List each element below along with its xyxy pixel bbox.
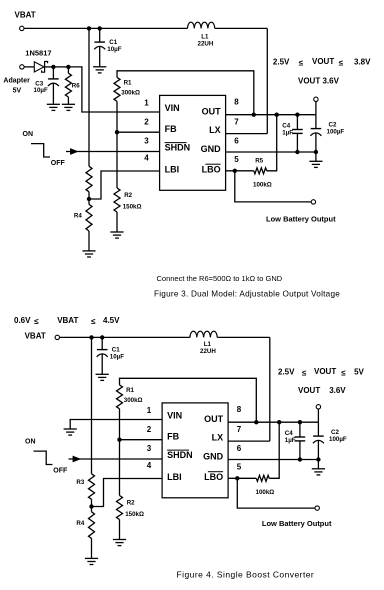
svg-text:C2: C2	[331, 429, 339, 436]
svg-text:VBAT: VBAT	[15, 11, 36, 20]
wire junction to R4	[91, 507, 93, 512]
capacitor C2	[313, 422, 324, 459]
terminal VBAT	[20, 26, 24, 30]
svg-text:8: 8	[234, 98, 239, 107]
wire R1 to FB	[116, 101, 118, 132]
svg-text:OFF: OFF	[51, 160, 66, 167]
wire LBO to output terminal	[235, 171, 311, 202]
wire corner down to LX	[266, 28, 268, 133]
resistor R5 100k	[254, 168, 267, 174]
wire LBO pin	[226, 170, 254, 172]
svg-text:6: 6	[237, 444, 242, 453]
svg-text:5V: 5V	[354, 368, 364, 377]
junction OUT/feedback	[254, 420, 258, 424]
resistor R4	[89, 512, 95, 539]
resistor R1	[114, 77, 120, 101]
svg-text:Figure 4. Single Boost Conver: Figure 4. Single Boost Converter	[177, 570, 315, 580]
wire FB pin	[117, 131, 160, 133]
svg-text:7: 7	[237, 425, 242, 434]
svg-text:VOUT 3.6V: VOUT 3.6V	[298, 77, 340, 86]
svg-text:4.5V: 4.5V	[103, 316, 120, 325]
wire VBAT rail	[60, 336, 191, 338]
wire R6 to ground	[67, 97, 69, 104]
svg-text:VBAT: VBAT	[25, 332, 46, 341]
svg-text:C4: C4	[285, 430, 293, 437]
svg-text:5V: 5V	[13, 88, 22, 95]
svg-text:R3: R3	[76, 479, 84, 486]
svg-text:LBI: LBI	[165, 164, 180, 174]
svg-text:1: 1	[144, 98, 149, 107]
svg-text:OUT: OUT	[204, 414, 224, 424]
junction LBO	[235, 476, 239, 480]
arrow SHDN	[70, 148, 79, 155]
svg-text:R6: R6	[72, 82, 80, 89]
wire adapter node to VIN	[68, 67, 159, 112]
svg-text:3: 3	[144, 137, 149, 146]
junction GND/C2	[316, 457, 320, 461]
svg-text:1µF: 1µF	[285, 437, 296, 444]
svg-text:GND: GND	[203, 451, 224, 461]
svg-text:R5: R5	[255, 157, 263, 164]
wire L1 to corner	[215, 27, 268, 29]
svg-text:4: 4	[144, 154, 149, 163]
wire R2 to ground	[116, 212, 118, 232]
junction OUT/C4	[295, 113, 299, 117]
wire to LBI junction	[88, 192, 90, 199]
wire GND rail to ground	[317, 460, 319, 469]
svg-text:VOUT: VOUT	[314, 367, 336, 376]
wire VBAT to divider resistor	[91, 337, 93, 473]
wire LBO pin	[228, 477, 256, 479]
wire R4 to ground	[88, 231, 90, 251]
ground C1	[93, 67, 106, 73]
junction OUT/R5	[275, 113, 279, 117]
svg-text:2.5V: 2.5V	[273, 57, 290, 66]
ground R2	[110, 232, 123, 238]
svg-text:LBI: LBI	[167, 472, 182, 482]
svg-text:4: 4	[147, 461, 152, 470]
wire OUT rail	[228, 421, 318, 423]
wire FB to R2	[119, 440, 121, 496]
junction FB	[117, 438, 121, 442]
svg-text:2.5V: 2.5V	[278, 368, 295, 377]
junction GND/C2	[314, 150, 318, 154]
svg-text:300kΩ: 300kΩ	[124, 397, 143, 404]
svg-text:10µF: 10µF	[110, 354, 124, 361]
ground C1	[96, 374, 109, 380]
svg-text:VIN: VIN	[167, 410, 182, 420]
junction OUT/C4	[298, 420, 302, 424]
svg-text:6: 6	[234, 137, 239, 146]
wire LBO to output terminal	[237, 478, 315, 508]
wire adapter to diode	[24, 66, 34, 68]
resistor R4	[86, 204, 92, 231]
overline SHDN	[167, 449, 189, 451]
svg-text:8: 8	[237, 405, 242, 414]
wire GND rail to ground	[315, 152, 317, 161]
svg-text:ON: ON	[25, 439, 36, 446]
svg-text:LX: LX	[212, 433, 224, 443]
wire R1 top feedback	[117, 71, 254, 115]
svg-text:Connect the R6=500Ω to 1kΩ to: Connect the R6=500Ω to 1kΩ to GND	[157, 274, 283, 283]
switch waveform	[31, 144, 50, 157]
junction R6	[66, 65, 70, 69]
ground output	[309, 161, 322, 167]
svg-text:VOUT: VOUT	[298, 386, 320, 395]
wire VBAT rail	[24, 27, 188, 29]
op-amp U1 boost converter IC box	[162, 403, 228, 498]
capacitor C3	[48, 67, 59, 104]
ground output	[312, 469, 325, 475]
inductor L1	[190, 331, 217, 337]
resistor R5 100k	[256, 475, 269, 481]
svg-text:2: 2	[144, 118, 149, 127]
svg-text:LBO: LBO	[202, 164, 221, 174]
wire LBI pin	[91, 171, 160, 199]
svg-text:5: 5	[237, 463, 242, 472]
terminal VBAT	[55, 335, 59, 339]
svg-text:FB: FB	[167, 431, 179, 441]
svg-text:100µF: 100µF	[329, 436, 347, 443]
ground R4	[85, 558, 98, 564]
svg-text:10µF: 10µF	[107, 46, 121, 53]
svg-text:0.6V: 0.6V	[14, 316, 31, 325]
terminal Adapter	[20, 65, 24, 69]
svg-text:FB: FB	[165, 124, 177, 134]
junction FB	[115, 130, 119, 134]
wire VOUT terminal stem	[317, 409, 319, 422]
wire OUT rail	[226, 114, 316, 116]
wire to LBI junction	[91, 499, 93, 506]
resistor R6	[65, 73, 71, 97]
junction C3	[51, 65, 55, 69]
junction OUT/R5	[277, 420, 281, 424]
wire R5 to OUT	[267, 115, 277, 171]
wire VOUT terminal stem	[315, 102, 317, 115]
wire diode to C3 node	[45, 66, 54, 68]
svg-text:≤: ≤	[34, 317, 39, 326]
wire LBI pin	[94, 479, 163, 507]
junction VBAT/divider	[87, 26, 91, 30]
svg-text:R1: R1	[124, 79, 132, 86]
svg-text:3: 3	[147, 444, 152, 453]
resistor R3	[89, 474, 95, 500]
op-amp U1 boost converter IC box	[160, 95, 226, 190]
wire C3 node to R6 node	[53, 66, 68, 68]
overline LBO	[205, 163, 220, 165]
svg-text:R2: R2	[127, 500, 135, 507]
resistor R2	[117, 496, 123, 520]
svg-text:10µF: 10µF	[34, 87, 48, 94]
svg-text:SHDN: SHDN	[167, 450, 193, 460]
svg-text:ON: ON	[23, 131, 34, 138]
svg-text:C1: C1	[112, 347, 120, 354]
wire FB to R2	[116, 132, 118, 188]
wire LX pin	[226, 133, 268, 135]
svg-text:R1: R1	[126, 387, 134, 394]
arrow SHDN	[73, 456, 82, 463]
resistor R1	[117, 385, 123, 409]
svg-text:R4: R4	[76, 520, 84, 527]
resistor R2	[114, 188, 120, 212]
svg-text:LX: LX	[209, 125, 221, 135]
wire R6 node stem	[67, 67, 69, 73]
capacitor C1	[94, 28, 105, 66]
svg-text:150kΩ: 150kΩ	[123, 204, 142, 211]
ground R4	[82, 251, 95, 257]
svg-text:1µF: 1µF	[282, 130, 293, 137]
wire L1 to corner	[217, 336, 270, 338]
wire LX pin	[228, 440, 270, 442]
svg-text:C4: C4	[282, 123, 290, 130]
wire SHDN pin	[66, 151, 160, 153]
svg-text:Adapter: Adapter	[3, 78, 30, 85]
capacitor C1	[97, 337, 108, 374]
wire R1 top feedback	[120, 378, 257, 422]
svg-text:5: 5	[234, 155, 239, 164]
capacitor C2	[310, 115, 321, 152]
svg-text:≤: ≤	[302, 369, 307, 378]
terminal Low Battery Output	[315, 506, 319, 510]
svg-text:100kΩ: 100kΩ	[256, 489, 275, 496]
inductor L1	[188, 22, 215, 28]
svg-text:≤: ≤	[339, 58, 344, 67]
svg-text:R4: R4	[74, 212, 82, 219]
svg-text:Figure 3. Dual Model: Adjusta: Figure 3. Dual Model: Adjustable Output …	[154, 290, 340, 299]
wire R2 to ground	[119, 520, 121, 540]
svg-text:VIN: VIN	[165, 103, 180, 113]
wire R4 to ground	[91, 539, 93, 559]
wire R1 to FB	[119, 409, 121, 440]
svg-text:3.8V: 3.8V	[354, 57, 371, 66]
svg-text:300kΩ: 300kΩ	[121, 89, 140, 96]
junction LBO	[233, 169, 237, 173]
overline SHDN	[165, 142, 187, 144]
terminal Low Battery Output	[311, 200, 315, 204]
overline LBO	[208, 471, 223, 473]
junction OUT/feedback	[252, 113, 256, 117]
junction VBAT/C1	[98, 26, 102, 30]
junction GND/C4	[295, 150, 299, 154]
wire GND rail	[228, 459, 318, 461]
svg-text:7: 7	[234, 118, 239, 127]
svg-text:LBO: LBO	[204, 472, 223, 482]
wire SHDN pin	[69, 458, 163, 460]
junction LBI divider	[87, 197, 91, 201]
wire VIN to ground	[70, 420, 162, 430]
svg-text:22UH: 22UH	[198, 40, 214, 47]
svg-text:VBAT: VBAT	[57, 316, 78, 325]
svg-text:C2: C2	[329, 122, 337, 129]
svg-text:GND: GND	[201, 144, 222, 154]
junction VBAT/C1	[100, 335, 104, 339]
wire corner down to LX	[269, 337, 271, 441]
svg-text:≤: ≤	[299, 58, 304, 67]
svg-text:100kΩ: 100kΩ	[253, 181, 272, 188]
svg-text:OUT: OUT	[202, 106, 222, 116]
ground C3	[47, 104, 60, 110]
wire FB pin	[120, 439, 163, 441]
capacitor C4	[292, 115, 303, 152]
svg-text:SHDN: SHDN	[165, 143, 191, 153]
wire VBAT to divider resistor	[88, 28, 90, 166]
ground VIN	[64, 429, 77, 435]
wire GND rail	[226, 151, 316, 153]
terminal VOUT	[316, 405, 320, 409]
diode D1 1N5817 schottky	[34, 62, 47, 73]
svg-text:1N5817: 1N5817	[25, 49, 51, 58]
junction VBAT/divider	[89, 335, 93, 339]
ground R2	[113, 540, 126, 546]
wire junction to R4	[88, 199, 90, 204]
svg-text:1: 1	[147, 406, 152, 415]
svg-text:OFF: OFF	[53, 468, 68, 475]
junction LBI divider	[89, 504, 93, 508]
switch waveform	[34, 451, 53, 464]
svg-text:VOUT: VOUT	[312, 57, 334, 66]
resistor divider upper	[86, 166, 92, 192]
svg-text:≤: ≤	[91, 317, 96, 326]
junction GND/C4	[298, 457, 302, 461]
svg-text:3.6V: 3.6V	[329, 386, 346, 395]
svg-text:Low Battery Output: Low Battery Output	[266, 214, 336, 223]
capacitor C4	[295, 422, 306, 459]
svg-text:≤: ≤	[341, 369, 346, 378]
svg-text:Low Battery Output: Low Battery Output	[262, 519, 332, 528]
ground R6	[62, 104, 75, 110]
svg-text:22UH: 22UH	[200, 348, 216, 355]
svg-text:C1: C1	[109, 39, 117, 46]
svg-text:R2: R2	[124, 192, 132, 199]
svg-text:2: 2	[147, 425, 152, 434]
svg-text:100µF: 100µF	[327, 129, 345, 136]
wire R5 to OUT	[269, 422, 279, 478]
svg-text:150kΩ: 150kΩ	[125, 511, 144, 518]
terminal VOUT	[314, 97, 318, 101]
